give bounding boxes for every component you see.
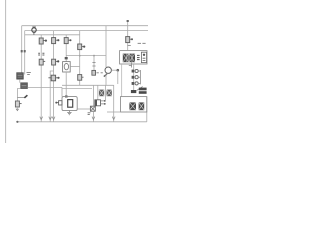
JB inner boxlet — [141, 52, 146, 62]
small comp end x94 — [92, 70, 96, 75]
motor inner — [68, 100, 73, 108]
vertical wire x53 — [53, 31, 55, 122]
ground bus left dot — [16, 121, 18, 123]
corner x80 to right-box top edge — [62, 84, 114, 86]
junction dot — [117, 69, 120, 72]
relay K1 out right — [70, 66, 80, 68]
relay K1 box — [63, 62, 71, 72]
relay R2 coil circle — [105, 67, 111, 73]
wire below F6 — [16, 107, 18, 110]
wire x93 down — [92, 85, 94, 106]
connector comp on x80 — [78, 75, 82, 81]
wire x133 below JB — [133, 64, 135, 90]
flasher comp — [95, 100, 101, 106]
fuse F1 terminal — [43, 40, 45, 42]
wire x121 below JB — [121, 64, 123, 97]
arrow top x127 — [127, 20, 129, 22]
arrowheads near ground bus — [92, 117, 95, 120]
SW1 detail — [32, 27, 35, 35]
arrowhead bottom x41 — [40, 117, 43, 120]
fuse F1b — [39, 59, 43, 65]
connector tick on left drop — [21, 50, 23, 52]
fuse F6 — [15, 101, 19, 107]
wire x94 from mid bus — [93, 56, 95, 71]
vertical wire x80 — [79, 31, 81, 85]
main feed wire x127 — [127, 21, 129, 51]
vertical wire x41 — [40, 35, 42, 122]
ground bus — [17, 121, 147, 123]
motor left attach — [59, 101, 62, 105]
starter component B — [21, 83, 28, 89]
JB hatched connector cells — [123, 54, 135, 63]
wire left drop inner — [24, 31, 26, 75]
fuse F2 — [52, 38, 56, 44]
end mark below F6 — [16, 109, 19, 111]
bus from starter right — [28, 86, 63, 88]
bulb tap 3 — [132, 82, 135, 85]
ticks on x94 wire — [92, 63, 95, 66]
fuse F6 tick — [19, 103, 21, 105]
comp X2 — [90, 106, 95, 111]
wire battery down — [19, 79, 21, 83]
junction mark on x66 — [65, 57, 68, 59]
wire corner to motor box — [61, 87, 63, 96]
wires through hatched pair — [104, 85, 106, 100]
bottom edge extension — [107, 111, 121, 113]
junction dot motor top — [65, 96, 68, 98]
bus line B+ top — [22, 25, 148, 27]
bulb tap 2 — [132, 76, 135, 79]
motor out right — [77, 108, 90, 110]
fuse F4 — [78, 44, 82, 50]
R2 out right — [111, 69, 117, 71]
wire stub below junction block — [131, 63, 133, 68]
upper hatched pair in right box — [99, 90, 104, 97]
wire X2 down — [92, 111, 94, 122]
hatched sq L — [129, 102, 136, 110]
fuse F2b — [52, 59, 56, 65]
junction dots on mid bus — [79, 55, 81, 57]
lower inner box — [121, 97, 147, 112]
bus line 3 — [25, 34, 80, 36]
specks below JB — [129, 64, 132, 66]
branch arrow right — [17, 97, 24, 99]
right rail for taps — [139, 70, 141, 84]
vertical wire x66 upper — [65, 35, 67, 62]
bus line 2 — [25, 30, 148, 32]
horizontal mid bus y55 — [66, 55, 106, 57]
wire lower parallel — [62, 88, 92, 90]
switch contact on x53 — [51, 75, 55, 81]
arrowheads bottom x50/x53 — [49, 117, 52, 120]
page left border — [5, 0, 7, 143]
fuse F5 — [126, 37, 130, 43]
jog to fuse wire — [17, 89, 20, 101]
inline connector on x41 — [38, 53, 40, 55]
wire x106 from top bus — [105, 26, 107, 67]
motor box M — [62, 97, 77, 111]
wire x106 below circle — [105, 74, 107, 85]
JB small marks — [137, 55, 140, 59]
junction block JB box — [120, 51, 147, 64]
bulb tap 1 — [132, 70, 135, 73]
battery component A — [17, 73, 24, 80]
fuse F1 — [39, 38, 43, 44]
wire left drop outer — [21, 26, 23, 73]
dashed link to relay contact — [97, 72, 103, 74]
specks right of battery — [27, 73, 31, 75]
branch x50 — [50, 71, 53, 122]
dark label T2 — [139, 88, 147, 91]
wire relay to motor — [65, 72, 67, 97]
ignition switch circle SW1 — [32, 28, 36, 32]
dark label T1 — [131, 90, 136, 93]
pointer diagonal — [137, 87, 143, 91]
starter highlight — [22, 84, 27, 86]
ground below motor — [67, 111, 71, 115]
relay K1 coil — [64, 63, 68, 69]
text specks left of X2 wire — [88, 113, 91, 115]
relay R2 contact — [104, 74, 107, 77]
battery inner light — [18, 75, 23, 77]
right box outline — [146, 97, 148, 122]
label specks right — [138, 42, 146, 44]
arrow terminal dark — [24, 95, 27, 98]
fuse F3 — [64, 38, 68, 44]
label specks near F5 — [127, 44, 130, 46]
hatched sq R — [139, 102, 145, 110]
wire dot down — [117, 70, 119, 84]
